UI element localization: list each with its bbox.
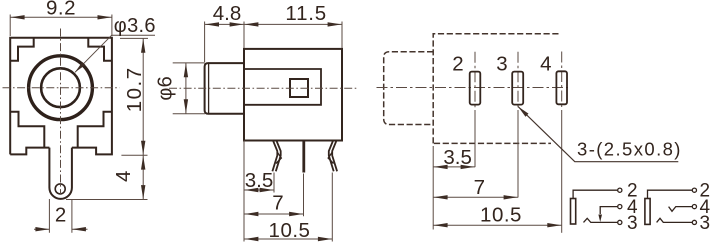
side view inner rectangle	[244, 69, 321, 105]
dimension φ6	[173, 63, 205, 114]
pad 3 centerline	[517, 52, 519, 110]
schematic B terminal 3	[692, 220, 696, 224]
pad 2	[470, 72, 481, 105]
svg-text:3-(2.5x0.8): 3-(2.5x0.8)	[577, 138, 682, 159]
schematic A wire terminal 3 with contact	[584, 218, 618, 222]
side view middle pin	[302, 142, 305, 173]
pad 4 centerline	[561, 52, 563, 111]
front view outer circle (barrel)	[29, 56, 93, 120]
schematic A sleeve	[571, 199, 576, 225]
svg-text:10.5: 10.5	[269, 219, 311, 242]
bottom view dashed body	[433, 34, 560, 144]
schematic B sleeve	[645, 199, 650, 225]
front view corner step bottom-right	[78, 112, 112, 148]
front view corner step top-right	[88, 38, 112, 61]
dimension 10.5 (bottom view)	[433, 224, 562, 226]
svg-text:3: 3	[627, 213, 638, 234]
svg-text:φ6: φ6	[155, 76, 177, 101]
svg-text:3: 3	[496, 52, 507, 75]
schematic A wire terminal 4 with arrow	[600, 207, 618, 214]
front view corner step bottom-left	[10, 112, 44, 148]
side view bent pin right	[329, 141, 337, 171]
schematic B terminal 4	[692, 205, 696, 209]
svg-text:3.5: 3.5	[443, 146, 472, 169]
svg-text:φ3.6: φ3.6	[114, 15, 156, 37]
schematic B wire terminal 4 open contact	[669, 207, 693, 212]
svg-text:3.5: 3.5	[245, 169, 274, 192]
dimension 11.5	[244, 23, 342, 25]
svg-text:3: 3	[700, 213, 710, 234]
svg-text:7: 7	[272, 192, 283, 215]
schematic A wire to terminal 2	[573, 190, 618, 198]
pad 4	[556, 71, 567, 104]
svg-text:11.5: 11.5	[285, 2, 327, 25]
side view body	[244, 49, 342, 141]
side view bottom extension lines	[244, 141, 332, 242]
side view bent pin left	[272, 141, 280, 171]
svg-text:9.2: 9.2	[46, 0, 76, 20]
front view body outline	[10, 38, 112, 155]
svg-text:4.8: 4.8	[213, 2, 242, 25]
schematic B wire to terminal 2	[648, 190, 693, 198]
dimension 2 (tab width)	[49, 199, 72, 233]
svg-text:4: 4	[540, 52, 551, 75]
dimension 4 (tab length)	[66, 199, 148, 201]
schematic B terminal 2	[692, 188, 696, 192]
front view corner step top-left	[10, 38, 34, 61]
dimension 3.5 (side)	[244, 189, 274, 191]
front view tab hole	[55, 184, 65, 194]
svg-text:2: 2	[55, 203, 66, 226]
svg-text:4: 4	[112, 171, 135, 182]
side view barrel	[205, 63, 244, 114]
svg-text:7: 7	[474, 176, 485, 199]
leader 3-(2.5x0.8)	[518, 107, 678, 162]
schematic B wire terminal 3 with contact	[657, 218, 693, 222]
front view solder tab	[49, 148, 72, 199]
dimension 10.7	[120, 38, 148, 155]
bottom view extension line left	[432, 146, 434, 230]
side view centerline	[169, 87, 357, 89]
dimension 7 (side)	[244, 213, 304, 215]
leader φ3.6	[75, 35, 155, 72]
pad 3	[512, 72, 523, 105]
schematic A terminal 2	[618, 188, 622, 192]
side view small square	[290, 79, 308, 97]
front view inner circle (hole)	[41, 68, 80, 107]
front view horizontal centerline	[3, 87, 120, 89]
dimension 9.2	[10, 15, 112, 37]
svg-text:10.7: 10.7	[123, 66, 146, 112]
dimension 7 (bottom view)	[433, 196, 518, 198]
bottom view dashed barrel	[384, 52, 434, 125]
svg-text:10.5: 10.5	[480, 204, 522, 227]
bottom view centerline	[377, 87, 569, 89]
dimension 4.8	[205, 22, 342, 63]
dimension 10.5 (side)	[244, 238, 332, 240]
pad 2 centerline	[474, 52, 476, 110]
front view vertical centerline	[60, 29, 62, 195]
svg-text:2: 2	[452, 52, 463, 75]
schematic A terminal 4	[618, 205, 622, 209]
dimension 3.5 (bottom view)	[433, 166, 475, 168]
schematic A terminal 3	[618, 220, 622, 224]
side view barrel rim line	[208, 63, 210, 114]
